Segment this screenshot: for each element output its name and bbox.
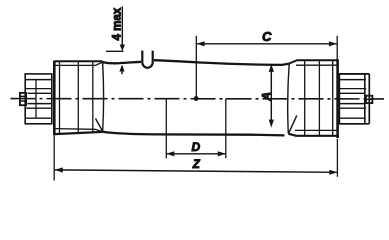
svg-text:A: A xyxy=(259,92,273,102)
right clip block xyxy=(339,74,369,124)
left cap face xyxy=(53,61,56,136)
dimension C xyxy=(196,36,337,99)
4 max dimension xyxy=(106,7,125,75)
centerline (lamp axis, dash-dot) xyxy=(11,98,385,100)
exhaust pip (4 max bump) xyxy=(142,51,152,68)
svg-text:C: C xyxy=(262,29,272,44)
left cap body xyxy=(54,61,103,134)
right contact tip xyxy=(366,96,372,103)
right cap xyxy=(288,59,338,138)
dimension Z xyxy=(54,136,337,181)
svg-text:D: D xyxy=(192,140,201,154)
dimension D xyxy=(166,98,226,158)
left clip block xyxy=(25,74,52,124)
svg-text:4 max: 4 max xyxy=(112,7,124,40)
svg-text:Z: Z xyxy=(192,159,201,171)
dimension A xyxy=(269,64,274,128)
left contact tip xyxy=(20,93,26,105)
glass bulb bottom outline xyxy=(103,132,285,136)
glass bulb top outline xyxy=(103,62,141,64)
node: light centre dot xyxy=(194,96,199,101)
